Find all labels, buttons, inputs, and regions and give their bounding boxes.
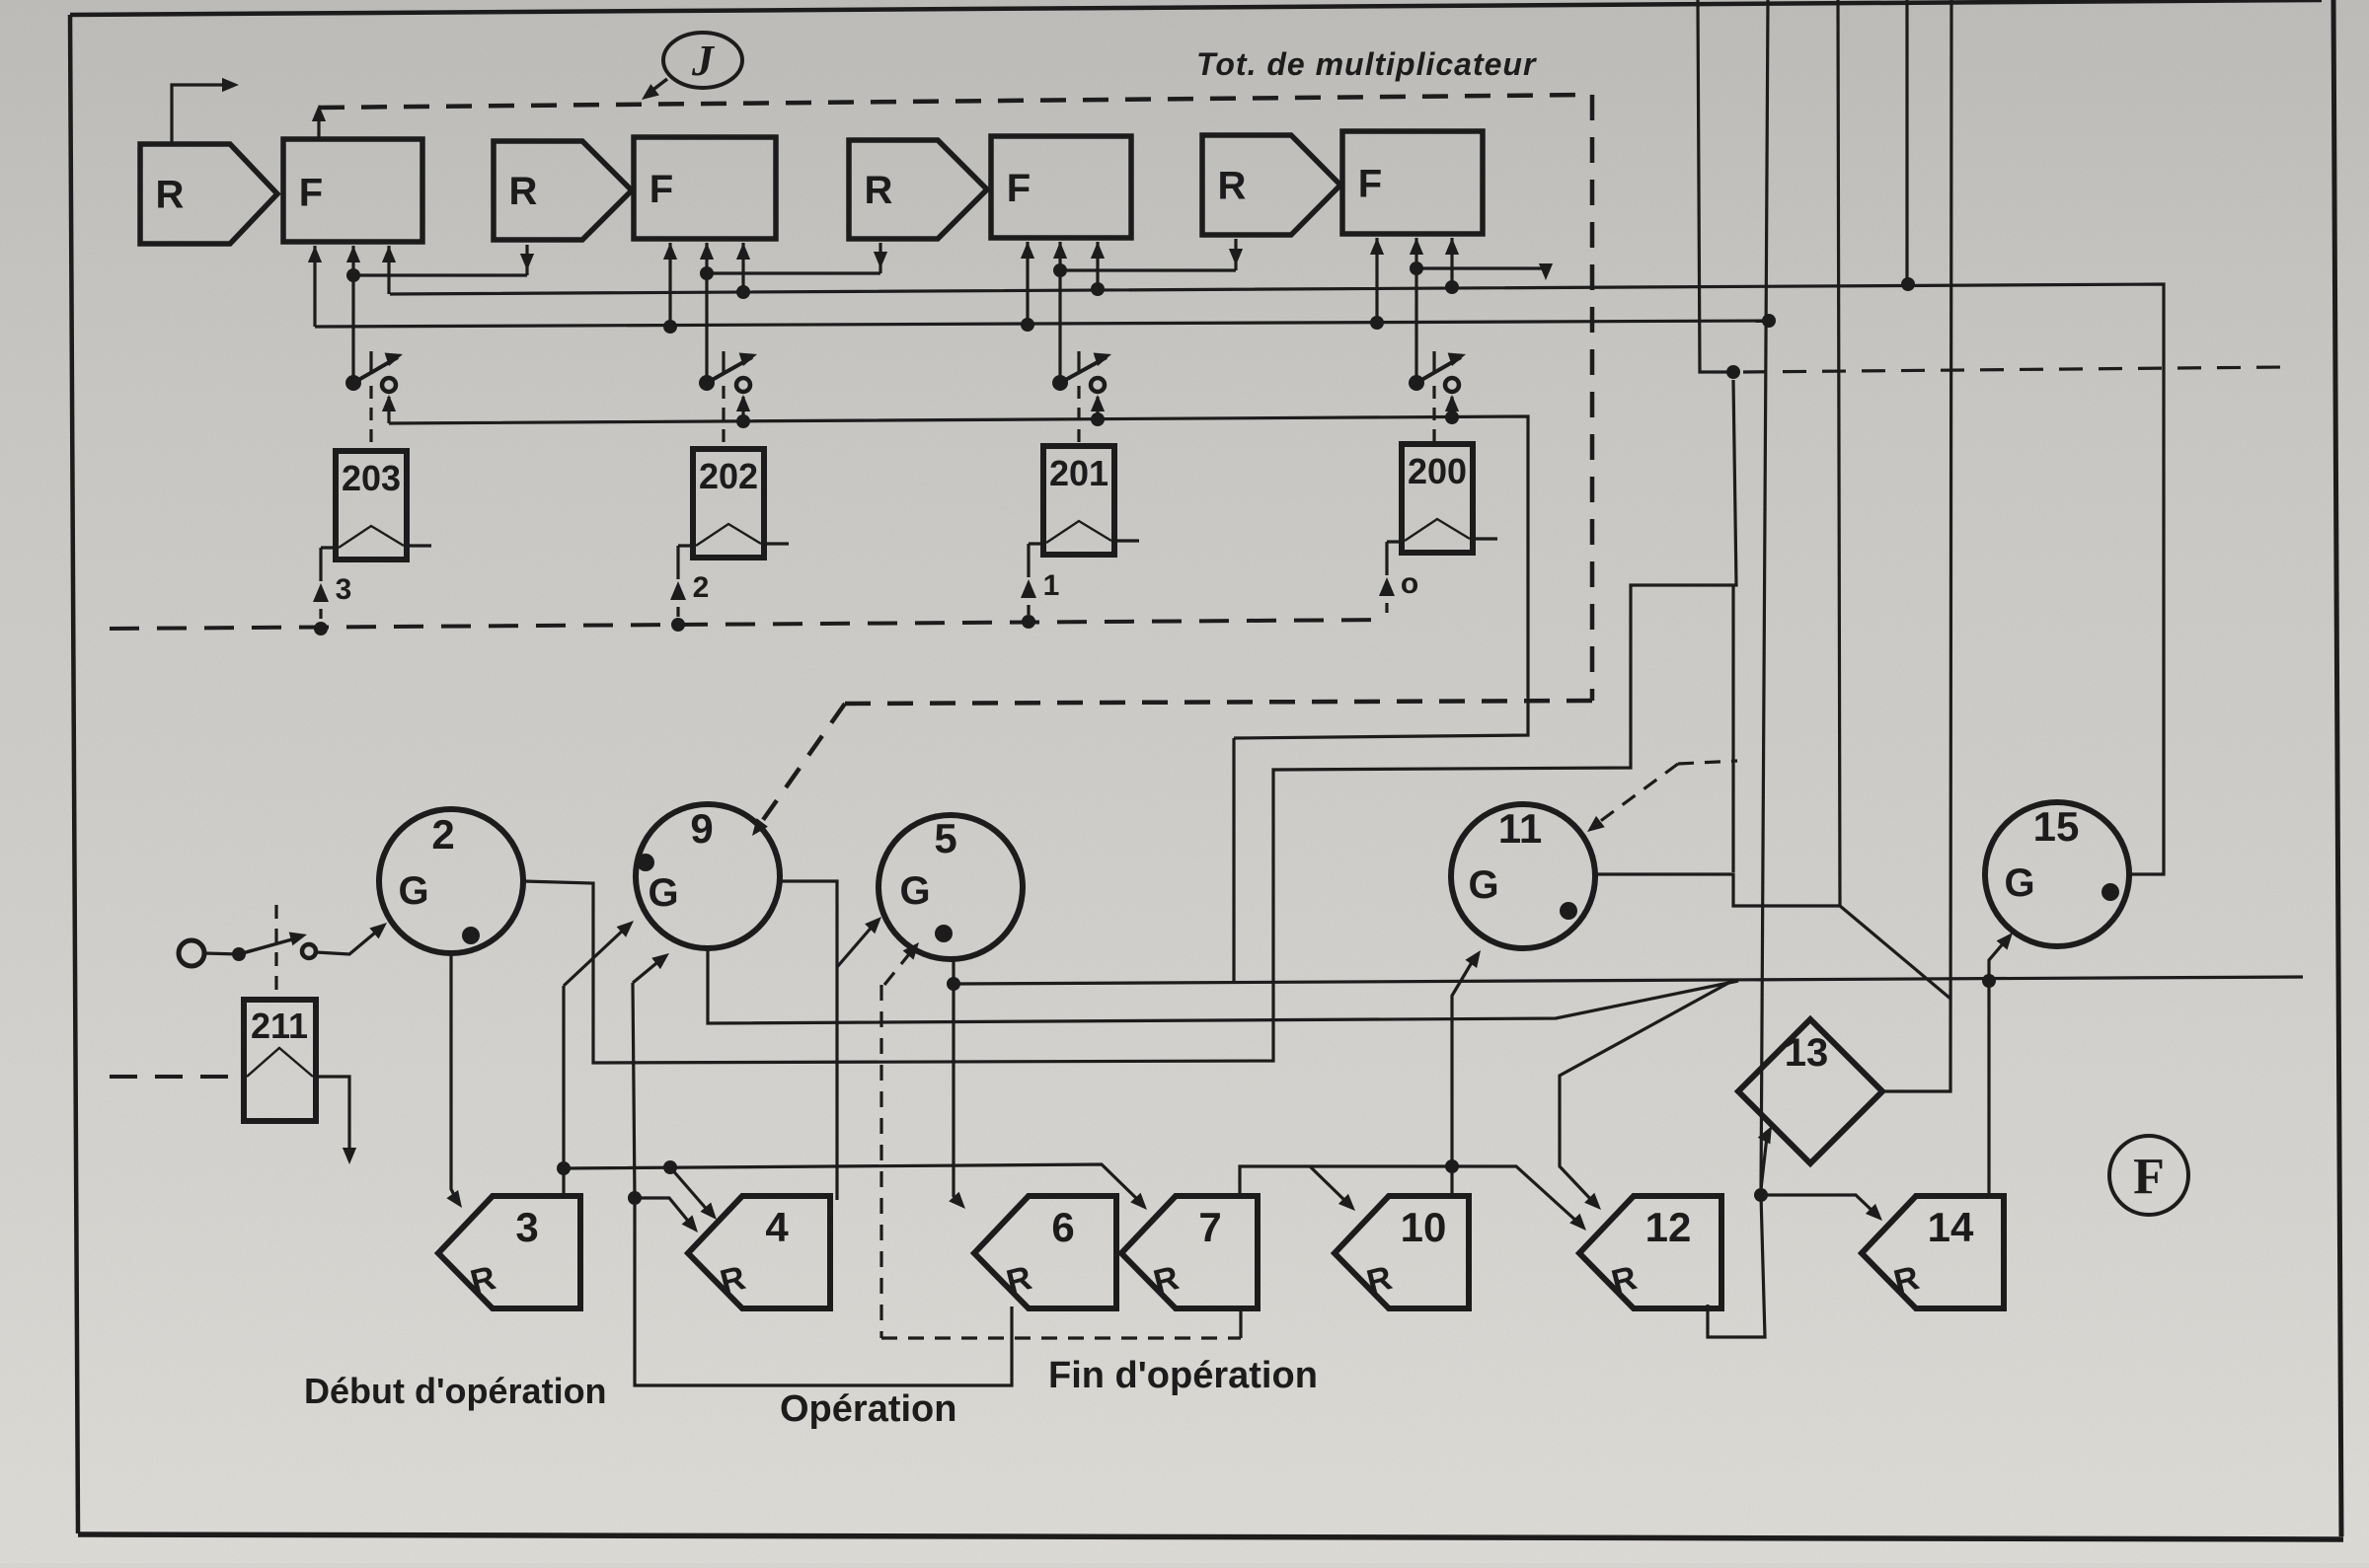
switch K2 arrow up into contact [741,397,744,419]
svg-text:o: o [1401,567,1418,600]
junction dot line1 F3 [1053,263,1067,277]
switch K4 actuator solid part [1432,351,1435,374]
junction dot line3 end V2 [1762,314,1776,328]
switch K3 blade [1060,357,1107,383]
junction dot lineA gate15 feed [1982,974,1996,988]
switch K4 arrow up into contact [1450,397,1453,419]
relay coil 200 right stub [1473,537,1497,540]
wire vertical V2 from top [1761,0,1768,1195]
wire operation loop [635,1198,1012,1385]
wire vertical V5 from top [1883,0,1951,1091]
wire arrow1 into gate 9 [564,928,626,986]
svg-text:200: 200 [1408,451,1467,491]
svg-text:F: F [1007,167,1031,210]
svg-text:Début d'opération: Début d'opération [304,1371,607,1411]
switch K1 dashed actuator [369,386,372,449]
start switch dashed actuator [274,905,277,998]
wire vertical V1 from top [1698,0,1733,372]
wire bus y1181 [564,1164,1141,1203]
svg-text:3: 3 [336,573,352,606]
wire input arrow o of coil 200 [1385,542,1388,575]
svg-text:11: 11 [1498,805,1542,852]
gate 5 state dot [935,925,953,942]
pentagon R-block 6 [974,1196,1116,1308]
wire F1 right input arrow [387,246,390,294]
svg-text:Tot. de multiplicateur: Tot. de multiplicateur [1196,46,1537,82]
switch K3 actuator solid part [1077,351,1080,374]
flip-flop F1 box [283,139,422,242]
svg-text:4: 4 [765,1204,789,1250]
register R2 block [494,141,632,240]
switch K1 arrow up into contact [387,397,390,423]
relay coil 201 chevron [1046,521,1111,543]
wire F3 middle input arrow [1058,242,1061,275]
pentagon R-block 3 [438,1196,580,1308]
switch K4 moving contact dot [1409,375,1424,391]
node J label circle [663,33,742,88]
relay coil 211 dashed left stub [110,1075,243,1079]
svg-text:12: 12 [1645,1204,1692,1250]
wire F4 left input arrow [1375,238,1378,327]
wire dashed arrow into gate 5 [884,949,913,985]
svg-text:3: 3 [515,1204,538,1250]
gate 11 state dot [1560,902,1577,920]
switch K2 actuator solid part [722,351,725,374]
wire F1 middle input arrow [351,246,354,275]
relay coil 211 chevron [247,1048,313,1077]
wire F2 right input arrow [741,243,744,292]
svg-text:202: 202 [699,456,758,496]
gate circle 2 [379,809,523,953]
wire F1 left input arrow [313,246,316,327]
relay coil 200 chevron [1405,519,1470,541]
svg-text:211: 211 [251,1006,308,1046]
svg-text:R: R [156,174,185,217]
wire vertical x571 to pentagon3 top [562,986,565,1198]
relay coil 200 left stub [1387,540,1404,543]
wire J-loop dashed bottom [845,701,1592,704]
wire gate9 right output [780,881,837,1200]
wire R1 top stub with arrow [172,85,228,144]
svg-text:203: 203 [342,458,401,498]
svg-text:F: F [2133,1149,2165,1205]
junction dot line4 K3 [1091,412,1105,426]
relay coil 202 box [693,449,764,558]
junction dot 4way [1445,1159,1459,1173]
wire gate11 riser to line D [1731,585,1734,872]
wire dashed line D right [1743,367,2286,372]
svg-text:F: F [299,172,323,215]
border frame top edge [70,0,2322,15]
switch K3 moving contact dot [1052,375,1068,391]
svg-text:G: G [398,869,428,913]
svg-text:Fin d'opération: Fin d'opération [1048,1355,1318,1396]
switch K4 wire from F4 middle [1414,268,1417,376]
wire V2 right arrow into pentagon 14 [1761,1195,1875,1214]
junction dot line2 F4 [1445,280,1459,294]
wire bus line2 [390,284,2164,874]
wire dashed vertical x893 [879,985,882,1338]
pentagon R-block 4 [688,1196,830,1308]
switch K4 dashed actuator [1432,386,1435,442]
wire gate2 output right path [523,380,1736,1063]
wire line A long horizontal [954,977,2303,984]
wire dashed stub [1678,761,1737,764]
svg-text:2: 2 [431,811,454,858]
wire vertical V3 from top [1838,0,1840,906]
svg-text:G: G [648,871,678,915]
gate circle 9 [636,804,780,948]
svg-text:R: R [1218,165,1247,208]
relay coil 203 right stub [407,544,431,547]
wire pentagon14 top to gate15 arrow [1989,940,2006,1196]
wire dashed riser pentagon7 bottom [1239,1309,1242,1338]
relay coil 203 box [336,451,407,560]
junction dot dashed bus at 2 [671,618,685,632]
svg-text:J: J [691,37,716,85]
wire vertical x641 [633,983,635,1198]
svg-text:R: R [509,170,538,213]
svg-text:6: 6 [1051,1204,1074,1250]
wire V2 arrow into diamond 13 [1761,1137,1767,1189]
wire bus line4 [389,416,1528,738]
svg-text:9: 9 [690,805,713,852]
start switch pivot dot [232,947,246,961]
start switch blade [239,937,299,954]
junction dot line4 K4 [1445,411,1459,424]
wire vertical V4 from top [1905,0,1908,284]
svg-text:5: 5 [934,815,956,861]
wire arrow2 into gate 9 [633,959,661,983]
junction dot x643 lower [628,1191,642,1205]
node F reference circle [2109,1136,2188,1215]
flip-flop F4 box [1342,131,1483,234]
svg-text:1: 1 [1043,569,1060,602]
junction dot bus1181 left [557,1161,571,1175]
svg-text:13: 13 [1785,1031,1829,1075]
wire F4 right input arrow [1450,238,1453,292]
switch K1 blade [353,357,398,383]
switch K2 dashed actuator [722,386,725,447]
svg-text:F: F [650,168,673,211]
switch K3 dashed actuator [1077,386,1080,444]
svg-text:201: 201 [1049,453,1108,493]
start contact O ring [179,940,204,966]
switch K4 fixed contact ring [1445,378,1459,392]
wire 4way down to pentagon10 top [1450,1166,1453,1196]
wire F3 right input arrow [1096,242,1099,292]
switch K2 fixed contact ring [736,378,750,392]
switch K1 moving contact dot [345,375,361,391]
svg-text:G: G [899,869,930,913]
gate circle 11 [1451,804,1595,948]
wire F1 top arrow to J-loop [317,112,320,139]
wire gate5 bottom to pentagon6 [954,959,959,1202]
wire input arrow 1 of coil 201 [1027,544,1030,577]
register R3 block [849,140,987,239]
register R1 block [140,144,277,244]
relay coil 201 box [1043,446,1114,555]
relay coil 203 left stub [321,546,338,549]
register R4 block [1202,135,1340,235]
gate circle 15 [1985,802,2129,946]
switch K2 wire from F2 middle [705,273,708,376]
wire input arrow 3 of coil 203 [319,548,322,581]
junction dot bus1181 branch [663,1160,677,1174]
svg-text:7: 7 [1198,1204,1221,1250]
relay coil 211 right stub down arrow [316,1077,349,1155]
wire branch arrow pentagon4 upper [670,1167,710,1213]
wire bus line1 seg F2-R3 [707,271,880,274]
junction dot line2 F3 [1091,282,1105,296]
svg-text:R: R [865,169,893,212]
wire 4way left to pentagon7 top [1240,1166,1452,1198]
wire W2 from gate9 bottom [708,948,1738,1023]
svg-text:15: 15 [2033,803,2080,850]
wire F2 middle input arrow [705,243,708,275]
border frame bottom edge [78,1534,2343,1539]
gate 15 state dot [2102,883,2119,901]
wire bus line1 seg F1-R2 [353,273,527,276]
switch K1 fixed contact ring [382,378,396,392]
wire F4 middle input arrow [1414,238,1417,275]
gate 9 state dot [637,854,654,871]
junction dot line2 F2 [736,285,750,299]
switch K2 moving contact dot [699,375,715,391]
relay coil 202 chevron [696,524,761,546]
wire branch arrow into gate 5 [837,924,875,967]
pentagon R-block 10 [1335,1196,1469,1308]
wire input arrow 2 of coil 202 [676,546,679,579]
border frame left edge [70,15,78,1533]
wire 4way vertical with arrow into gate 11 [1452,959,1474,1166]
gate circle 5 [879,815,1023,959]
svg-text:G: G [2004,861,2034,905]
wire F2 left input arrow [668,243,671,327]
wire 4way right arrow into pentagon12 point [1452,1166,1579,1224]
wire O to pivot [204,953,239,954]
junction dot line3 F3 [1021,318,1034,332]
junction dot dashed bus at 1 [1022,615,1035,629]
junction dot V1-lineD [1726,365,1740,379]
relay coil 202 right stub [764,542,789,545]
switch K3 arrow up into contact [1096,397,1099,419]
junction dot line3 F4 [1370,316,1384,330]
junction dot line1 F2 [700,266,714,280]
wire bus line3 [315,321,1769,327]
wire bus line1 seg F4-out [1416,268,1546,272]
wire F3 left input arrow [1026,242,1029,327]
switch K2 blade [707,357,752,383]
wire dashed arrow into gate 11 [1595,764,1678,825]
wire V2 down to pentagon12 bottom loop [1708,1195,1765,1337]
pentagon R-block 7 [1121,1196,1258,1308]
flip-flop F2 box [634,137,776,239]
border frame right edge [2333,0,2341,1536]
wire branch arrow pentagon4 point [635,1198,692,1226]
switch K1 actuator solid part [369,351,372,374]
pentagon R-block 12 [1579,1196,1721,1308]
switch K3 wire from F3 middle [1058,270,1061,376]
relay coil 203 chevron [339,526,404,548]
wire J-loop dashed diagonal into gate 9 [758,704,845,827]
switch K3 fixed contact ring [1091,378,1105,392]
wire dashed bus lower [110,620,1387,629]
junction dot gate5 bottom [947,977,960,991]
junction dot line1 F1 [346,268,360,282]
diamond 13 [1738,1019,1882,1163]
svg-text:Opération: Opération [780,1388,956,1430]
relay coil 202 left stub [678,544,695,547]
relay coil 200 box [1402,444,1473,553]
junction dot line2 vertical V4 [1901,277,1915,291]
svg-text:2: 2 [693,571,710,604]
switch K4 blade [1416,357,1461,383]
wire lineA branch to pentagon12 chamfer [1560,981,1732,1203]
pentagon R-block 14 [1862,1196,2004,1308]
wire gate5 bottom junction to line4 riser [1232,738,1235,983]
svg-text:14: 14 [1928,1204,1974,1250]
relay coil 201 right stub [1114,539,1139,542]
wire J-loop dashed right [1590,95,1595,701]
junction dot line3 F2 [663,320,677,334]
junction dot line1 F4 [1410,261,1423,275]
start switch fixed ring [302,944,316,958]
svg-text:10: 10 [1401,1204,1447,1250]
gate 2 state dot [462,927,480,944]
wire J-loop dashed top [319,95,1592,108]
relay coil 211 box [244,1000,316,1121]
flip-flop F3 box [991,136,1131,238]
svg-text:G: G [1468,863,1498,907]
junction dot dashed bus at 3 [314,622,328,635]
wire bus line1 seg F3-R4 [1060,268,1236,271]
junction dot line4 K2 [736,414,750,428]
junction dot V2 lower [1754,1188,1768,1202]
wire gate11 output jog [1596,874,1950,999]
wire gate2 bottom to pentagon 3 [451,953,456,1199]
wire into gate 2 [316,929,380,954]
wire J label arrow [647,79,667,95]
svg-text:F: F [1358,163,1382,206]
relay coil 201 left stub [1029,542,1045,545]
wire dashed horizontal y1356 [881,1336,1241,1339]
wire branch arrow into pentagon 10 [1310,1166,1348,1204]
switch K1 wire from F1 middle [351,275,354,376]
